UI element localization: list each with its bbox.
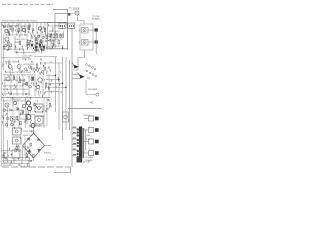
wire h y63	[40, 62, 63, 64]
terminal dot B	[95, 40, 98, 43]
wire v x7 lower	[7, 107, 9, 128]
resistor R235	[31, 77, 33, 80]
wire h y150	[1, 150, 12, 152]
svg-text:D207 R234 560 C218: D207 R234 560 C218	[3, 86, 24, 88]
connector pair row3	[84, 141, 88, 143]
svg-text:IC201 AN7062: IC201 AN7062	[49, 25, 64, 28]
resistor R233	[19, 79, 21, 82]
resistor R222	[52, 41, 54, 44]
transformer tap wires	[72, 128, 77, 156]
svg-text:TR205 TR207: TR205 TR207	[5, 62, 19, 64]
diode D205	[41, 49, 44, 52]
resistor RB3	[40, 47, 42, 50]
OL1 marks	[61, 25, 65, 27]
relay RY201 box	[35, 104, 43, 112]
svg-text:C211 10/16: C211 10/16	[22, 56, 33, 58]
wire arrow feed2	[72, 78, 80, 80]
capacitor MD7	[29, 66, 32, 69]
bottom band line3	[2, 163, 28, 165]
secondary ladder	[84, 116, 99, 156]
wire h y114	[19, 114, 35, 116]
capacitor RB17	[42, 36, 45, 39]
transistor TR206	[5, 37, 9, 41]
resistor MF7	[22, 111, 24, 114]
wire v x19 lower	[18, 108, 20, 128]
svg-text:C232 47/50: C232 47/50	[23, 131, 35, 133]
wire arrow feed1	[72, 74, 80, 76]
bus line B1	[55, 57, 57, 112]
bus stub s5	[46, 91, 59, 93]
junction dot bus1	[55, 75, 56, 76]
capacitor RB18	[39, 46, 41, 47]
capacitor MF12	[24, 121, 26, 122]
capacitor MH5	[27, 152, 30, 155]
wire bridge bottom	[33, 158, 35, 161]
wire v x15	[15, 36, 36, 53]
connector pin 4	[82, 28, 89, 34]
bottom corner wire	[54, 167, 71, 173]
junction dot RB24	[40, 40, 41, 41]
diode D215a	[27, 137, 30, 141]
wire v x44	[43, 98, 45, 128]
rule mid right	[68, 108, 102, 110]
wire bridge top	[33, 128, 35, 133]
tick t3	[21, 161, 23, 164]
transistor TR203	[38, 27, 41, 30]
capacitor MF26	[46, 109, 48, 110]
junction dot bus2	[58, 79, 59, 80]
transformer secondary bar	[83, 128, 85, 158]
transistor TR226	[26, 115, 31, 120]
transistor TR228	[31, 124, 35, 128]
wire h y97	[1, 97, 50, 99]
transformer winding bumps	[77, 128, 79, 158]
bus stub s3	[46, 83, 63, 85]
capacitor MF14	[11, 123, 14, 126]
transistor TR212	[38, 78, 42, 82]
wire v x47	[46, 98, 48, 126]
junction dot MF4	[5, 114, 6, 115]
capacitor C212	[30, 67, 32, 68]
wire terminal bus	[95, 30, 97, 54]
capacitor RB9	[27, 45, 30, 48]
junction dot bus3	[62, 83, 63, 84]
value text specks bus area specks	[56, 72, 61, 94]
capacitor RB15	[45, 41, 47, 42]
capacitor ME7	[29, 85, 32, 88]
resistor R217	[56, 34, 58, 37]
svg-text:R221 150: R221 150	[22, 59, 32, 61]
transistor TR202	[22, 28, 25, 31]
junction dot ME6	[19, 77, 20, 78]
svg-text:C226 R250: C226 R250	[10, 99, 21, 101]
svg-text:BOARD: BOARD	[92, 18, 100, 21]
junction dot MF23	[36, 106, 37, 107]
svg-text:D211 R254: D211 R254	[34, 116, 45, 118]
resistor MF10	[20, 122, 22, 125]
wire h y57	[1, 57, 30, 59]
transformer secondary vertical	[85, 130, 87, 150]
wire vB4	[42, 34, 44, 50]
lamp PL201	[75, 11, 79, 15]
transistor TR216	[5, 103, 9, 107]
tap label 2	[73, 138, 76, 139]
junction dot bus4	[65, 87, 66, 88]
junction dot MH9	[29, 162, 30, 163]
resistor R211	[19, 41, 21, 44]
svg-text:100/6: 100/6	[15, 42, 21, 44]
capacitor MG5	[4, 152, 6, 153]
resistor R205	[28, 26, 30, 29]
X202 inner	[15, 139, 18, 142]
junction dot MG3	[11, 154, 12, 155]
resistor R231	[13, 76, 15, 79]
OL2 marks	[69, 25, 73, 27]
resistor RB16	[35, 38, 37, 41]
relay RY202 coil	[38, 119, 41, 122]
capacitor MF22	[33, 103, 36, 106]
bus stub s4	[46, 87, 66, 89]
wire vB2	[34, 34, 36, 50]
resistor MH10	[26, 154, 28, 157]
capacitor MF1	[3, 109, 6, 112]
boxed comp X201	[13, 128, 22, 135]
wire grid band E	[5, 74, 49, 96]
wire TR226 leads	[25, 112, 32, 121]
tap label 5	[73, 154, 76, 155]
value text specks band E specks	[3, 75, 52, 100]
svg-text:F201 T2A: F201 T2A	[3, 161, 13, 164]
resistor R207	[44, 28, 46, 31]
value text specks band B specks	[28, 34, 51, 51]
component box OL2	[68, 23, 75, 29]
wire vB5	[46, 34, 48, 50]
transistor TR220	[22, 104, 26, 108]
wire h y56	[34, 56, 57, 58]
value text specks mid lower specks	[34, 63, 50, 75]
svg-text:AC: AC	[90, 102, 94, 105]
junction dot RB13	[29, 43, 30, 44]
resistor MG7	[15, 149, 16, 152]
wire bridge right	[45, 145, 52, 147]
connector CN203 circle	[64, 115, 68, 119]
wire TR205 leads	[10, 63, 19, 72]
junction dot MF24	[41, 107, 42, 108]
capacitor ME9	[31, 78, 34, 81]
capacitor RB20	[38, 35, 41, 38]
wire vB1	[30, 34, 32, 50]
arrow A2	[78, 73, 81, 77]
left border	[0, 23, 2, 168]
capacitor ME2	[25, 93, 27, 94]
wire vB6	[50, 34, 52, 50]
transistor TR201	[5, 29, 8, 32]
jack J2	[96, 93, 99, 96]
tap label 4	[73, 149, 76, 150]
arrow A1	[72, 63, 75, 67]
tap label 0	[73, 127, 76, 128]
bus stub s2	[46, 79, 59, 81]
capacitor C201	[32, 29, 34, 30]
svg-text:C236 R256 4.7K: C236 R256 4.7K	[30, 126, 46, 128]
diode D215c	[28, 149, 31, 153]
wire box bottom	[44, 48, 68, 50]
junction dot RB19	[33, 47, 34, 48]
tick t4	[28, 158, 30, 161]
component box OL1	[59, 23, 66, 29]
value text specks mid corner specks	[34, 44, 49, 53]
svg-text:TL 28.8V: TL 28.8V	[69, 7, 80, 11]
junction dot RB21	[30, 40, 31, 41]
transistor TR218	[13, 101, 16, 104]
wire bridge left	[22, 146, 24, 161]
tap label 1	[73, 132, 76, 133]
wire pin4 out	[88, 29, 96, 31]
resistor RB6	[46, 36, 48, 39]
capacitor RB12	[39, 42, 42, 45]
capacitor RB22	[48, 34, 51, 37]
transformer bottom block	[77, 157, 83, 163]
resistor R224	[58, 41, 60, 44]
capacitor C218	[25, 83, 27, 84]
wire vF x13	[12, 98, 14, 128]
bus line B4	[65, 57, 67, 130]
junction dot ME4	[33, 77, 34, 78]
junction dot RB4	[27, 40, 28, 41]
svg-text:C209 R216: C209 R216	[15, 39, 26, 41]
diode D215b	[37, 138, 40, 141]
transistor TR222	[26, 101, 30, 105]
svg-text:R236 C220 D207 R238 1K: R236 C220 D207 R238 1K	[3, 89, 28, 91]
junction dot MF11	[6, 113, 7, 114]
X201 inner	[15, 130, 18, 133]
resistor Rg3	[30, 143, 32, 146]
svg-text:6.3V: 6.3V	[86, 139, 91, 141]
resistor MH7	[28, 163, 30, 166]
resistor R218	[60, 34, 62, 37]
resistor R201	[10, 26, 12, 29]
value text specks band C specks	[15, 45, 24, 54]
junction dot ME1	[35, 86, 36, 87]
transformer T201 core	[79, 127, 82, 162]
bus line B3	[62, 57, 64, 140]
title dashed rule	[2, 4, 53, 6]
capacitor MF13	[6, 117, 9, 120]
resistor MF9	[16, 117, 18, 120]
bridge rectifier D215 diamond	[23, 133, 45, 158]
resistor MH3	[3, 155, 5, 158]
specks mid60	[45, 61, 51, 73]
svg-text:R230 2.2K C216 100/16: R230 2.2K C216 100/16	[3, 80, 26, 82]
wire v x55	[54, 14, 56, 49]
bus vertical x72	[71, 28, 73, 167]
wire top h1	[53, 10, 68, 51]
svg-text:SW201: SW201	[44, 153, 52, 155]
wire TR206 leads	[4, 34, 10, 43]
capacitor MD1	[24, 68, 27, 71]
value text specks band A specks	[2, 23, 45, 37]
bus vertical x69	[69, 60, 71, 130]
diode D215d	[38, 149, 41, 152]
resistor R219	[62, 34, 64, 37]
connector CN203 box	[63, 112, 69, 122]
resistor MF21	[49, 103, 51, 106]
wire stair from connector	[73, 50, 85, 70]
dark component cluster B	[31, 44, 45, 49]
capacitor MH4	[26, 156, 28, 157]
resistor ME8	[32, 77, 34, 80]
wire top h2	[55, 13, 70, 15]
resistor MB3	[9, 47, 11, 50]
capacitor MH1	[18, 164, 20, 165]
resistor R227	[36, 64, 38, 67]
capacitor RB26	[28, 44, 30, 45]
capacitor MB1	[4, 44, 7, 47]
junction dot RB25	[48, 40, 49, 41]
transistor TR214	[36, 85, 40, 89]
resistor R216	[53, 34, 55, 37]
bottom band lines	[2, 157, 30, 159]
tick t2	[13, 158, 15, 164]
wire v x25 g	[24, 144, 26, 156]
value text specks band G specks	[9, 128, 34, 154]
capacitor MG2	[5, 157, 7, 158]
value text specks band D specks	[3, 58, 44, 75]
capacitor MF25	[47, 100, 49, 101]
capacitor ME11	[10, 93, 12, 94]
resistor ME12	[26, 82, 28, 85]
wire vB0	[26, 34, 28, 50]
junction dot MH8	[18, 158, 19, 159]
capacitor RB23	[35, 39, 37, 40]
svg-text:TR201 TR202 TR203 IC201 TR204: TR201 TR202 TR203 IC201 TR204	[2, 21, 37, 23]
junction dot ME5	[49, 84, 50, 85]
bottom band line2	[2, 160, 32, 162]
boxed comp X202	[13, 137, 22, 144]
switch S1 contacts	[86, 64, 97, 79]
resistor MD4	[44, 67, 46, 70]
svg-text:PHONES: PHONES	[88, 89, 98, 91]
capacitor MF6	[16, 107, 19, 110]
wire switch down	[86, 80, 96, 95]
capacitor MF3	[5, 124, 8, 127]
wire pin3 out	[88, 41, 96, 43]
junction dot RB11	[39, 43, 40, 44]
transistor TR224	[27, 106, 31, 110]
svg-text:S201 AC: S201 AC	[3, 164, 12, 167]
value text specks band F2 specks	[34, 100, 51, 113]
relay RY202 box	[35, 116, 43, 124]
resistor MG4	[16, 146, 18, 149]
wire vB3	[38, 34, 40, 50]
capacitor Cg2	[27, 147, 29, 148]
wire vF x25	[25, 98, 27, 128]
junction dot RB1	[34, 36, 35, 37]
box comp X203	[12, 150, 20, 158]
bottom rule	[2, 166, 71, 168]
extra specks top band	[4, 25, 26, 35]
connector pair row2	[84, 129, 88, 131]
svg-text:POWER: POWER	[85, 157, 94, 159]
junction dot g1	[24, 143, 25, 144]
wire grid band A	[5, 23, 45, 37]
capacitor RB14	[41, 41, 43, 42]
capacitor MF8	[12, 119, 15, 122]
transistor TR210	[6, 77, 10, 81]
resistor R215	[50, 34, 52, 37]
wire lamp lead	[70, 12, 75, 15]
capacitor ME3	[22, 84, 24, 85]
resistor MH2	[33, 155, 35, 158]
resistor MB2	[3, 46, 4, 49]
connector CN201 box	[80, 24, 93, 50]
capacitor MH6	[30, 161, 32, 162]
transistor TR207	[17, 65, 21, 69]
resistor MD8	[37, 68, 39, 71]
capacitor ME10	[48, 88, 50, 89]
capacitor RB10	[35, 40, 38, 43]
tick t1	[5, 158, 7, 161]
junction dot RB7	[41, 42, 42, 43]
capacitor MG6	[18, 146, 20, 147]
terminal dot A	[95, 28, 98, 31]
capacitor MB5	[7, 49, 9, 50]
wire v x27 lower	[26, 108, 28, 124]
svg-text:R252 C234: R252 C234	[10, 117, 21, 119]
capacitor MG1	[18, 149, 21, 152]
wire v x3	[3, 36, 5, 70]
bus stub s1	[46, 75, 56, 77]
resistor RB8	[40, 40, 42, 43]
tap label 3	[73, 143, 76, 144]
junction J1	[68, 13, 70, 15]
resistor MB4	[10, 44, 12, 47]
svg-text:0V 6.3V: 0V 6.3V	[83, 162, 91, 164]
junction dot RB5	[32, 41, 33, 42]
connector pin 3	[82, 40, 89, 46]
diode D201	[36, 42, 39, 45]
capacitor MD6	[33, 69, 36, 72]
capacitor MD2	[41, 70, 44, 73]
value text specks band F specks	[2, 99, 30, 129]
connector pair row4	[84, 152, 88, 154]
junction dot MF2	[12, 118, 13, 119]
junction dot MD5	[27, 70, 28, 71]
svg-text:R229 560 C214 47/16 D206: R229 560 C214 47/16 D206	[5, 72, 32, 74]
wire v x7 g	[7, 140, 9, 162]
capacitor RB2	[27, 40, 30, 43]
wire v x3 lower	[3, 98, 5, 162]
value text specks IC box specks	[49, 24, 64, 49]
connector pair row1	[84, 118, 88, 120]
bus line B2	[58, 63, 60, 130]
capacitor MD3	[39, 73, 41, 74]
top rule	[1, 22, 68, 24]
junction dot MG8	[3, 155, 4, 156]
resistor R209	[7, 42, 9, 45]
transistor TR205	[8, 65, 12, 69]
diode D203	[36, 49, 39, 52]
junction dot MF5	[18, 109, 19, 110]
capacitor C206	[26, 43, 28, 44]
IC block box	[48, 23, 68, 49]
svg-text:C228 R246 10K C230: C228 R246 10K C230	[3, 110, 24, 112]
relay RY201 coil	[38, 107, 41, 110]
value text specks band H specks	[8, 155, 29, 168]
resistor R237	[45, 83, 47, 86]
resistor R203	[18, 28, 20, 31]
svg-text:6.3V 150: 6.3V 150	[46, 160, 55, 162]
